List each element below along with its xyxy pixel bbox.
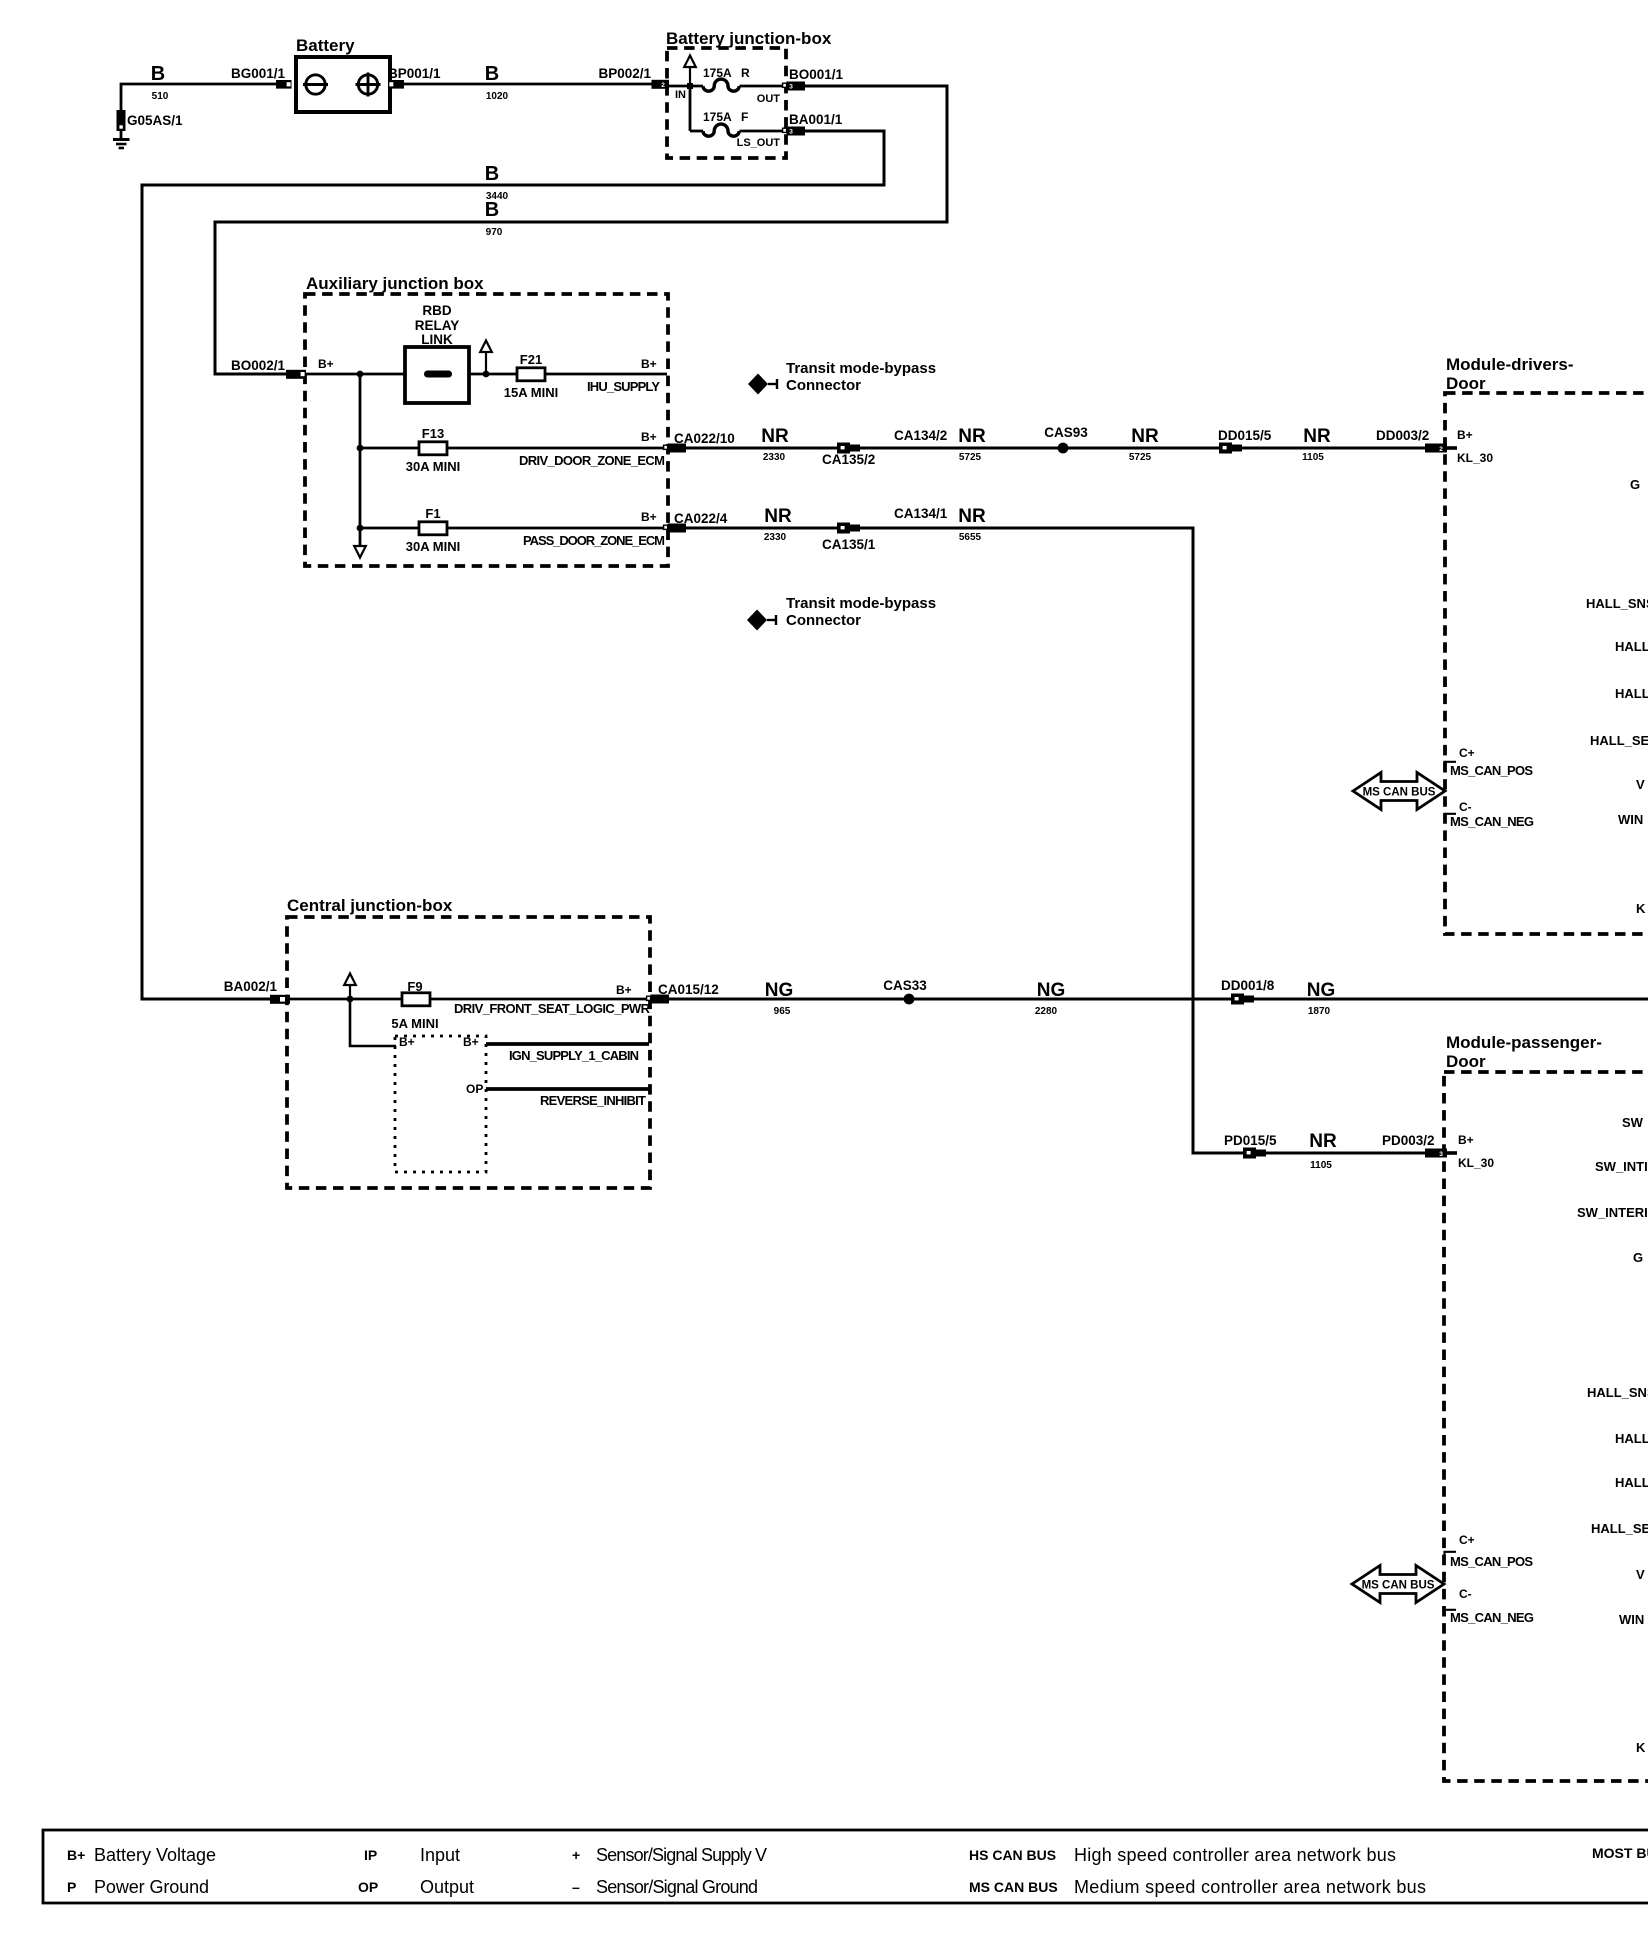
svg-text:NG: NG [1037, 980, 1066, 1001]
wire IN row [669, 85, 703, 88]
svg-text:C-: C- [1459, 1587, 1472, 1601]
svg-text:R: R [741, 66, 750, 80]
connector BA002/1 [270, 995, 290, 1004]
svg-text:SW: SW [1622, 1115, 1644, 1130]
svg-text:HALL_SNS: HALL_SNS [1586, 596, 1648, 611]
svg-text:HALL: HALL [1615, 1475, 1648, 1490]
svg-text:MOST BUS: MOST BUS [1592, 1845, 1648, 1861]
svg-text:BA001/1: BA001/1 [789, 112, 843, 127]
svg-text:B: B [485, 163, 499, 185]
svg-text:HALL_SE: HALL_SE [1591, 1521, 1648, 1536]
connector BG001/1 [276, 80, 292, 89]
wire NR 5725 [860, 447, 1063, 450]
svg-text:3: 3 [1439, 1151, 1443, 1158]
svg-text:HALL: HALL [1615, 639, 1648, 654]
svg-text:NR: NR [761, 426, 789, 447]
MS CAN BUS arrow (passenger) [1352, 1566, 1444, 1603]
svg-text:970: 970 [486, 227, 503, 238]
battery plus terminal [358, 75, 377, 94]
connector BP001/1 [389, 80, 405, 89]
svg-text:B+: B+ [67, 1847, 85, 1863]
svg-text:BG001/1: BG001/1 [231, 66, 286, 81]
wire NG 2280 [909, 998, 1231, 1001]
svg-text:MS_CAN_NEG: MS_CAN_NEG [1450, 814, 1534, 829]
svg-text:MS CAN BUS: MS CAN BUS [969, 1879, 1058, 1895]
svg-text:Sensor/Signal Ground: Sensor/Signal Ground [596, 1877, 758, 1897]
connector CA015/12 [647, 996, 651, 1000]
svg-text:WIN: WIN [1619, 1612, 1644, 1627]
svg-text:F: F [741, 110, 748, 124]
svg-text:PD015/5: PD015/5 [1224, 1133, 1277, 1148]
wire B 1020 [404, 83, 652, 86]
svg-text:G05AS/1: G05AS/1 [127, 113, 183, 128]
svg-text:30A MINI: 30A MINI [406, 539, 460, 554]
svg-text:OUT: OUT [757, 93, 781, 105]
svg-text:B+: B+ [641, 510, 657, 524]
svg-text:BP001/1: BP001/1 [388, 66, 441, 81]
transit connector 1 [748, 374, 777, 395]
fuse F21 [517, 368, 545, 381]
svg-text:CA022/10: CA022/10 [674, 431, 735, 446]
svg-text:2: 2 [1439, 446, 1443, 453]
connector BO001/1 [783, 83, 787, 87]
svg-text:175A: 175A [703, 110, 732, 124]
wire LS_OUT row [740, 130, 788, 133]
svg-text:G: G [1633, 1250, 1643, 1265]
wire to ground [120, 131, 123, 139]
svg-text:F21: F21 [520, 352, 542, 367]
svg-text:CAS93: CAS93 [1044, 425, 1088, 440]
svg-text:F13: F13 [422, 426, 444, 441]
svg-text:MS_CAN_POS: MS_CAN_POS [1450, 1554, 1533, 1569]
svg-text:NR: NR [764, 506, 792, 527]
battery minus terminal [306, 75, 325, 94]
svg-text:F1: F1 [425, 506, 440, 521]
svg-text:LINK: LINK [421, 332, 453, 347]
svg-text:BA002/1: BA002/1 [224, 979, 278, 994]
wire B 970 : BO001/1 to BO002/1 [215, 86, 947, 374]
node F9 tap [347, 996, 354, 1003]
svg-text:5725: 5725 [1129, 452, 1152, 463]
svg-text:MS CAN BUS: MS CAN BUS [1362, 1580, 1435, 1592]
svg-text:Battery: Battery [296, 36, 355, 55]
svg-text:V: V [1636, 1567, 1645, 1582]
svg-text:B: B [151, 63, 165, 85]
svg-text:30A MINI: 30A MINI [406, 459, 460, 474]
svg-text:WIN: WIN [1618, 812, 1643, 827]
wire relay to F21 [469, 373, 517, 376]
svg-text:OP: OP [358, 1879, 378, 1895]
wire NR 1105 [1242, 447, 1426, 450]
node F13 tap [357, 445, 364, 452]
wire NR 2330 (passenger) [686, 527, 838, 530]
svg-text:B: B [485, 63, 499, 85]
wire F13 row [360, 447, 419, 450]
connector PD015/5 [1243, 1148, 1266, 1159]
svg-text:2280: 2280 [1035, 1006, 1058, 1017]
svg-text:G: G [1630, 477, 1640, 492]
connector DD003/2 [1425, 444, 1447, 453]
svg-text:IN: IN [675, 89, 686, 101]
svg-text:C+: C+ [1459, 746, 1475, 760]
node CAS33 [904, 994, 915, 1005]
svg-text:3: 3 [789, 129, 793, 136]
arrow up (supply) [480, 341, 492, 353]
svg-text:SW_INTI: SW_INTI [1595, 1159, 1648, 1174]
svg-text:Sensor/Signal Supply V: Sensor/Signal Supply V [596, 1845, 767, 1865]
svg-text:Battery junction-box: Battery junction-box [666, 29, 832, 48]
svg-text:Auxiliary junction box: Auxiliary junction box [306, 274, 484, 293]
svg-text:Connector: Connector [786, 377, 861, 394]
svg-text:IHU_SUPPLY: IHU_SUPPLY [587, 379, 660, 394]
svg-text:15A MINI: 15A MINI [504, 385, 558, 400]
node CAS93 [1058, 443, 1069, 454]
transit connector 2 [747, 610, 776, 631]
wire F1 row [360, 527, 419, 530]
node F1 tap [357, 525, 364, 532]
svg-text:5655: 5655 [959, 532, 982, 543]
svg-text:Medium speed controller area n: Medium speed controller area network bus [1074, 1877, 1426, 1897]
svg-text:MS CAN BUS: MS CAN BUS [1363, 787, 1436, 799]
svg-text:1105: 1105 [1302, 452, 1324, 463]
svg-text:BO001/1: BO001/1 [789, 67, 844, 82]
legend box [43, 1830, 1648, 1903]
svg-text:K: K [1636, 1740, 1646, 1755]
svg-text:+: + [572, 1847, 580, 1863]
svg-text:Connector: Connector [786, 612, 861, 629]
svg-text:CA134/1: CA134/1 [894, 506, 948, 521]
svg-text:IP: IP [364, 1847, 377, 1863]
pin stub MS_CAN_NEG (driver) [1445, 814, 1457, 820]
wire NR 5725 b [1063, 447, 1219, 450]
svg-text:CAS33: CAS33 [883, 978, 927, 993]
svg-text:5725: 5725 [959, 452, 982, 463]
svg-text:C+: C+ [1459, 1533, 1475, 1547]
wire stub into module [1447, 1151, 1457, 1155]
wire up to arrow [689, 67, 691, 86]
svg-text:2: 2 [661, 82, 665, 89]
arrow down aux bus [354, 546, 366, 558]
svg-text:B+: B+ [463, 1035, 479, 1049]
svg-text:CA015/12: CA015/12 [658, 982, 719, 997]
svg-text:NR: NR [1309, 1131, 1337, 1152]
svg-text:LS_OUT: LS_OUT [737, 137, 781, 149]
wire up to arrow [485, 352, 487, 374]
central junction box outline [287, 917, 650, 1188]
connector CA022/4 [664, 525, 668, 529]
svg-text:HALL_SE: HALL_SE [1590, 733, 1648, 748]
pin stub MS_CAN_POS (driver) [1445, 762, 1457, 768]
svg-text:Power Ground: Power Ground [94, 1877, 209, 1897]
node F21 tap [483, 371, 490, 378]
connector DD001/8 [1231, 994, 1254, 1005]
arrow up (supply) [684, 56, 696, 68]
svg-text:B+: B+ [399, 1035, 415, 1049]
inner module (dotted) [395, 1036, 486, 1172]
wire DRIV_FRONT_SEAT_LOGIC_PWR [430, 998, 649, 1001]
wire NR 5655 to passenger door [860, 528, 1426, 1153]
svg-text:Battery Voltage: Battery Voltage [94, 1845, 216, 1865]
svg-text:CA022/4: CA022/4 [674, 511, 728, 526]
svg-text:B+: B+ [641, 430, 657, 444]
svg-text:175A: 175A [703, 66, 732, 80]
node IN junction [687, 83, 693, 89]
connector CA022/10 [664, 445, 668, 449]
svg-text:B+: B+ [1457, 428, 1473, 442]
svg-text:Transit mode-bypass: Transit mode-bypass [786, 360, 936, 377]
svg-text:IGN_SUPPLY_1_CABIN: IGN_SUPPLY_1_CABIN [509, 1048, 639, 1063]
svg-text:MS_CAN_POS: MS_CAN_POS [1450, 763, 1533, 778]
svg-text:1020: 1020 [486, 91, 509, 102]
svg-text:Transit mode-bypass: Transit mode-bypass [786, 595, 936, 612]
svg-text:K: K [1636, 901, 1646, 916]
wire IHU_SUPPLY [545, 373, 667, 376]
node aux bus top [357, 371, 364, 378]
svg-text:1870: 1870 [1308, 1006, 1331, 1017]
MS CAN BUS arrow (driver) [1353, 773, 1445, 810]
svg-text:Module-passenger-: Module-passenger- [1446, 1033, 1602, 1052]
wire B+ feed [306, 373, 405, 376]
battery U Battery [296, 57, 390, 112]
svg-text:2330: 2330 [763, 452, 786, 463]
wire PASS_DOOR_ZONE_ECM [447, 527, 667, 530]
svg-text:F9: F9 [407, 979, 422, 994]
relay RBD RELAY LINK [405, 347, 469, 403]
svg-text:B: B [485, 199, 499, 221]
pin stub MS_CAN_POS (passenger) [1445, 1552, 1457, 1558]
svg-text:HALL: HALL [1615, 1431, 1648, 1446]
connector CA135/1 CA134/1 [837, 523, 860, 534]
ground connector G05AS/1 [117, 110, 126, 131]
svg-text:DD015/5: DD015/5 [1218, 428, 1272, 443]
battery junction box outline [667, 48, 786, 158]
svg-text:SW_INTERI: SW_INTERI [1577, 1205, 1648, 1220]
wire stub to inner module [350, 999, 396, 1046]
wire NG 965 [669, 998, 909, 1001]
fuse 175A F [703, 124, 739, 136]
module passenger door outline [1444, 1072, 1648, 1781]
svg-text:C-: C- [1459, 800, 1472, 814]
wire IGN_SUPPLY_1_CABIN [486, 1042, 649, 1046]
svg-text:B+: B+ [318, 357, 334, 371]
svg-text:DD001/8: DD001/8 [1221, 978, 1275, 993]
svg-text:NR: NR [1303, 426, 1331, 447]
svg-text:OP: OP [466, 1082, 483, 1096]
svg-text:PD003/2: PD003/2 [1382, 1133, 1435, 1148]
svg-text:NR: NR [958, 426, 986, 447]
connector DD015/5 [1219, 443, 1242, 454]
svg-text:NG: NG [1307, 980, 1336, 1001]
wire B 510 (ground to battery) [121, 84, 276, 110]
svg-text:NG: NG [765, 980, 794, 1001]
module drivers door outline [1445, 393, 1648, 934]
svg-text:Door: Door [1446, 374, 1486, 393]
wire DRIV_DOOR_ZONE_ECM [447, 447, 667, 450]
svg-text:1105: 1105 [1310, 1160, 1332, 1171]
svg-text:HALL_SNS: HALL_SNS [1587, 1385, 1648, 1400]
svg-text:3: 3 [789, 84, 793, 91]
wire NG 1870 [1254, 998, 1648, 1001]
wire B 3440 : BA001/1 to BA002/1 [142, 131, 884, 999]
fuse F9 [402, 993, 430, 1006]
wire REVERSE_INHIBIT [486, 1087, 649, 1091]
svg-text:B+: B+ [616, 983, 632, 997]
svg-text:5A MINI: 5A MINI [391, 1016, 438, 1031]
wire NR 2330 (driver) [686, 447, 838, 450]
svg-text:510: 510 [152, 91, 169, 102]
connector BA001/1 [783, 128, 787, 132]
fuse F1 [419, 522, 447, 535]
svg-text:HS CAN BUS: HS CAN BUS [969, 1847, 1056, 1863]
ground symbol [113, 140, 130, 149]
svg-text:NR: NR [958, 506, 986, 527]
svg-text:HALL: HALL [1615, 686, 1648, 701]
svg-text:PASS_DOOR_ZONE_ECM: PASS_DOOR_ZONE_ECM [523, 533, 665, 548]
svg-text:2330: 2330 [764, 532, 787, 543]
svg-text:B+: B+ [641, 357, 657, 371]
svg-text:CA135/1: CA135/1 [822, 537, 876, 552]
fuse F13 [419, 442, 447, 455]
svg-text:CA134/2: CA134/2 [894, 428, 947, 443]
auxiliary junction box outline [305, 294, 668, 566]
connector BO002/1 [286, 370, 306, 379]
svg-text:–: – [572, 1879, 580, 1895]
svg-text:Input: Input [420, 1845, 460, 1865]
svg-text:Output: Output [420, 1877, 474, 1897]
connector CA135/2 CA134/2 [837, 443, 860, 454]
connector PD003/2 [1425, 1149, 1447, 1158]
svg-text:965: 965 [774, 1006, 791, 1017]
svg-text:RELAY: RELAY [415, 318, 460, 333]
svg-text:KL_30: KL_30 [1458, 1156, 1494, 1170]
svg-text:MS_CAN_NEG: MS_CAN_NEG [1450, 1610, 1534, 1625]
svg-text:Door: Door [1446, 1052, 1486, 1071]
svg-text:CA135/2: CA135/2 [822, 452, 875, 467]
wire stub into module [1447, 446, 1457, 450]
wire to F9 [290, 998, 402, 1001]
wire OUT row [740, 85, 788, 88]
arrow up (supply) [344, 974, 356, 986]
wire up to arrow [349, 985, 351, 999]
wire IN down to LS fuse [689, 86, 692, 131]
svg-text:DRIV_FRONT_SEAT_LOGIC_PWR: DRIV_FRONT_SEAT_LOGIC_PWR [454, 1001, 651, 1016]
svg-text:BO002/1: BO002/1 [231, 358, 286, 373]
svg-text:B+: B+ [1458, 1133, 1474, 1147]
svg-text:Central junction-box: Central junction-box [287, 896, 453, 915]
svg-text:DD003/2: DD003/2 [1376, 428, 1429, 443]
svg-text:P: P [67, 1879, 76, 1895]
svg-text:KL_30: KL_30 [1457, 451, 1493, 465]
fuse 175A R [703, 79, 739, 91]
svg-text:NR: NR [1131, 426, 1159, 447]
svg-text:BP002/1: BP002/1 [598, 66, 651, 81]
svg-text:Module-drivers-: Module-drivers- [1446, 355, 1574, 374]
svg-text:RBD: RBD [422, 303, 451, 318]
svg-text:High speed controller area net: High speed controller area network bus [1074, 1845, 1396, 1865]
pin stub MS_CAN_NEG (passenger) [1445, 1610, 1457, 1616]
connector BP002/1 [652, 80, 670, 89]
svg-text:REVERSE_INHIBIT: REVERSE_INHIBIT [540, 1093, 646, 1108]
svg-text:V: V [1636, 777, 1645, 792]
wire aux bus vertical [359, 374, 362, 546]
svg-text:DRIV_DOOR_ZONE_ECM: DRIV_DOOR_ZONE_ECM [519, 453, 665, 468]
wire to fuse F [690, 130, 703, 133]
